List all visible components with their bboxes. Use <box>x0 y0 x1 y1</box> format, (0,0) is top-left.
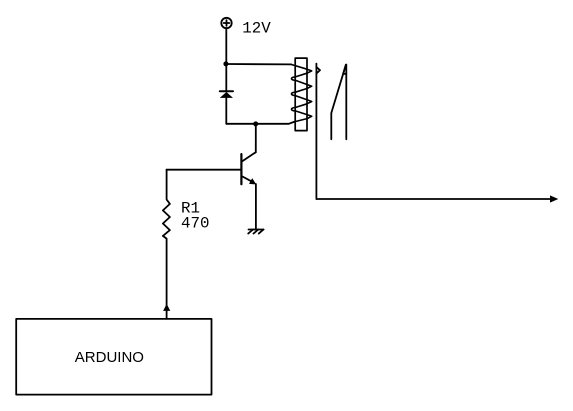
svg-text:12V: 12V <box>242 20 271 38</box>
svg-text:ARDUINO: ARDUINO <box>75 349 144 366</box>
svg-text:470: 470 <box>181 215 209 233</box>
